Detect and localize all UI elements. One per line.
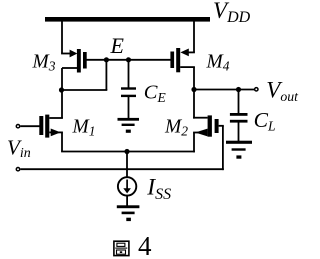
wire E riser horizontal to M3 drain xyxy=(61,89,108,91)
svg-text:CE: CE xyxy=(144,82,167,105)
node dot CL junction xyxy=(236,87,241,92)
svg-text:CL: CL xyxy=(254,108,276,133)
wire Vout horizontal xyxy=(194,89,254,91)
wire E riser xyxy=(105,60,107,90)
wire M1 gate lead xyxy=(20,125,39,127)
svg-text:M1: M1 xyxy=(72,117,96,139)
node dot M3-drain/M1-drain junction xyxy=(59,87,64,92)
transistor M1 gate bar xyxy=(39,116,43,135)
wire M3 drain horizontal xyxy=(62,67,77,69)
wire M3 source riser xyxy=(61,20,63,54)
terminal Vin- open circle xyxy=(16,168,19,171)
ground CL bar2 xyxy=(232,148,246,150)
caption glyph 圖 inner bottom box xyxy=(117,250,126,254)
wire M3 drain riser xyxy=(61,68,63,90)
wire M2 gate lead xyxy=(219,125,224,127)
capacitor CL top plate xyxy=(230,113,248,116)
wire M2 drain riser xyxy=(193,90,195,119)
transistor M4 channel bar xyxy=(176,48,180,72)
svg-text:ISS: ISS xyxy=(146,175,171,203)
wire M4 drain riser xyxy=(193,67,195,89)
current source ISS arrowhead xyxy=(123,188,131,193)
wire M2 source horizontal xyxy=(193,132,208,134)
svg-text:VDD: VDD xyxy=(213,0,251,26)
svg-text:M4: M4 xyxy=(206,51,230,73)
wire M2 drain horizontal xyxy=(193,117,208,119)
capacitor CE stem bottom xyxy=(128,97,130,119)
transistor M1 channel bar xyxy=(45,115,49,138)
caption glyph 圖 middle stroke xyxy=(115,247,127,249)
capacitor CL stem top xyxy=(238,90,240,114)
wire M4 source horizontal xyxy=(188,51,195,53)
caption glyph 圖 inner top box xyxy=(117,243,125,246)
node dot E-riser junction xyxy=(104,57,109,62)
svg-text:Vin: Vin xyxy=(7,135,31,161)
svg-text:4: 4 xyxy=(138,231,152,259)
terminal Vin+ open circle xyxy=(16,125,19,128)
transistor M3 channel bar xyxy=(77,49,81,73)
node dot M4/M2 drain junction xyxy=(191,87,196,92)
svg-text:M2: M2 xyxy=(164,117,188,139)
current source ISS arrow shaft xyxy=(126,180,128,191)
ground CE bar3 xyxy=(126,130,131,133)
ground CL bar3 xyxy=(236,155,241,158)
transistor M3 (PMOS) source arrow xyxy=(70,50,78,58)
ground CL bar1 xyxy=(226,141,252,144)
node dot CE junction xyxy=(126,57,131,62)
transistor M3 gate bar xyxy=(83,52,87,69)
capacitor CL stem bottom xyxy=(238,123,240,142)
wire M1 drain horizontal xyxy=(49,117,63,119)
ground CE bar2 xyxy=(122,124,135,126)
svg-text:E: E xyxy=(110,33,125,58)
transistor M4 gate bar xyxy=(170,52,174,69)
ground CE bar1 xyxy=(118,118,140,121)
wire M1 drain riser xyxy=(61,90,63,118)
ground ISS bar3 xyxy=(126,218,131,221)
wire tail node horizontal xyxy=(61,151,195,153)
wire Vin- horizontal xyxy=(20,168,223,170)
svg-text:Vout: Vout xyxy=(266,78,299,104)
current source ISS circle xyxy=(118,177,136,195)
node dot tail ISS junction xyxy=(124,149,129,154)
wire M3 source horizontal xyxy=(61,53,71,55)
transistor M4 (PMOS) source arrow xyxy=(180,49,188,57)
wire M4 drain horizontal xyxy=(180,66,195,68)
wire M2 gate vertical xyxy=(222,126,224,170)
wire M1 source riser xyxy=(61,132,63,151)
caption glyph 圖 outer box xyxy=(114,241,129,255)
wire node E horizontal xyxy=(87,59,171,61)
wire ISS stem top xyxy=(126,152,128,178)
ground ISS bar1 xyxy=(117,205,140,208)
ground ISS bar2 xyxy=(122,212,135,215)
capacitor CE bottom plate xyxy=(121,95,136,97)
terminal Vout open circle xyxy=(255,88,258,91)
wire M4 source riser xyxy=(193,20,195,52)
transistor M2 (NMOS) source arrow xyxy=(195,129,207,137)
capacitor CL bottom plate xyxy=(230,120,248,123)
caption glyph 圖 inner dot xyxy=(120,251,122,253)
svg-text:M3: M3 xyxy=(32,51,56,73)
capacitor CE stem top xyxy=(128,60,130,88)
transistor M2 channel bar xyxy=(208,115,212,136)
capacitor CE top plate xyxy=(121,87,136,89)
VDD rail xyxy=(45,17,210,22)
wire M1 source horizontal xyxy=(49,131,63,133)
wire M2 source riser xyxy=(193,133,195,153)
wire ISS stem bottom xyxy=(126,195,128,206)
transistor M1 (NMOS) source arrow xyxy=(51,129,61,137)
transistor M2 gate bar xyxy=(215,119,219,133)
